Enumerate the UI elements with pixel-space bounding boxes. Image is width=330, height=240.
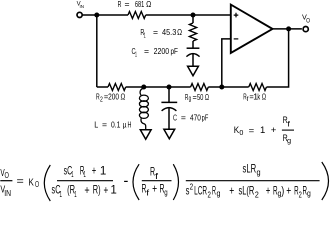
- svg-text:1: 1: [84, 169, 86, 179]
- svg-text:50: 50: [197, 92, 204, 102]
- svg-text:C: C: [173, 112, 177, 122]
- svg-text:1: 1: [71, 169, 73, 179]
- svg-text:+: +: [92, 165, 97, 178]
- svg-text:): ): [281, 185, 284, 198]
- svg-text:=: =: [102, 119, 107, 129]
- svg-text:2: 2: [100, 95, 103, 104]
- svg-text:+: +: [104, 184, 109, 197]
- svg-text:200: 200: [108, 92, 119, 102]
- svg-text:g: g: [216, 188, 220, 198]
- svg-text:Ω: Ω: [205, 92, 210, 102]
- svg-text:681: 681: [135, 0, 145, 9]
- svg-text:g: g: [307, 188, 311, 198]
- svg-text:2200: 2200: [154, 46, 170, 56]
- svg-text:470: 470: [190, 112, 201, 122]
- svg-text:1: 1: [144, 31, 146, 40]
- svg-text:2: 2: [207, 189, 211, 199]
- svg-text:1: 1: [135, 50, 137, 59]
- svg-text:+: +: [286, 185, 291, 198]
- svg-text:=: =: [17, 177, 24, 188]
- svg-text:LCR: LCR: [194, 185, 207, 198]
- svg-text:+: +: [84, 184, 89, 197]
- svg-text:µ: µ: [123, 119, 127, 129]
- svg-text:+: +: [271, 125, 277, 136]
- svg-text:0.1: 0.1: [111, 119, 121, 129]
- svg-text:K: K: [28, 178, 34, 189]
- svg-text:R): R): [93, 184, 101, 197]
- svg-text:Ω: Ω: [121, 92, 126, 102]
- svg-text:g: g: [164, 187, 168, 197]
- svg-text:=: =: [125, 0, 130, 9]
- svg-text:+: +: [229, 185, 234, 198]
- svg-text:O: O: [35, 180, 39, 189]
- svg-text:0: 0: [239, 128, 243, 137]
- svg-text:1: 1: [100, 164, 106, 177]
- svg-text:L: L: [94, 119, 98, 129]
- svg-text:1: 1: [60, 189, 63, 199]
- svg-text:2: 2: [299, 189, 302, 199]
- svg-text:Ω: Ω: [177, 27, 182, 37]
- svg-text:1: 1: [110, 184, 116, 197]
- svg-text:Ω: Ω: [262, 92, 267, 102]
- svg-text:=: =: [181, 112, 186, 122]
- svg-text:f: f: [247, 96, 249, 103]
- svg-text:=: =: [153, 27, 158, 37]
- svg-text:45.3: 45.3: [162, 27, 176, 37]
- svg-text:2: 2: [255, 189, 259, 199]
- svg-text:=: =: [249, 125, 255, 136]
- svg-text:H: H: [128, 119, 132, 129]
- svg-text:O: O: [306, 17, 310, 24]
- svg-text:+: +: [266, 185, 271, 198]
- svg-text:1: 1: [74, 189, 77, 199]
- svg-text:sLR: sLR: [243, 163, 257, 176]
- svg-text:2: 2: [190, 182, 194, 192]
- svg-text:g: g: [256, 167, 260, 177]
- svg-text:IN: IN: [80, 4, 85, 10]
- svg-text:k: k: [257, 92, 260, 102]
- svg-text:R: R: [118, 0, 122, 9]
- svg-text:sL(R: sL(R: [238, 185, 254, 198]
- svg-text:pF: pF: [202, 112, 209, 122]
- svg-text:R: R: [212, 185, 216, 198]
- svg-text:pF: pF: [170, 46, 178, 56]
- svg-text:IN: IN: [4, 189, 11, 198]
- svg-text:g: g: [287, 136, 291, 145]
- svg-text:1: 1: [260, 125, 265, 136]
- svg-text:=: =: [144, 46, 149, 56]
- svg-text:Ω: Ω: [146, 0, 152, 9]
- svg-text:g: g: [189, 95, 192, 102]
- svg-text:+: +: [152, 183, 157, 196]
- svg-text:O: O: [5, 171, 9, 180]
